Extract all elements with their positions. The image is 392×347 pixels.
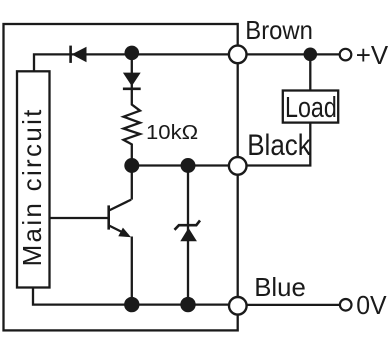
svg-text:Black: Black bbox=[247, 129, 311, 162]
svg-text:Blue: Blue bbox=[254, 272, 306, 302]
svg-text:+V: +V bbox=[356, 40, 389, 70]
svg-text:0V: 0V bbox=[356, 290, 387, 320]
svg-text:Load: Load bbox=[285, 92, 337, 124]
svg-text:Main circuit: Main circuit bbox=[17, 107, 47, 266]
svg-text:Brown: Brown bbox=[245, 15, 313, 45]
svg-text:10kΩ: 10kΩ bbox=[146, 121, 198, 144]
